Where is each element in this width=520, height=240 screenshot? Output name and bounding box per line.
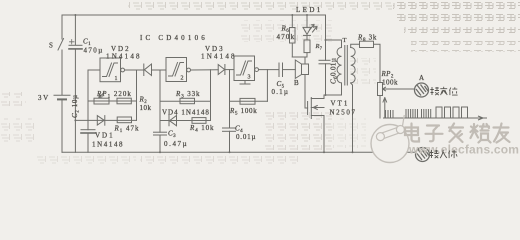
node output2: [210, 70, 212, 121]
resistor R3: [180, 98, 195, 103]
wire primary top: [326, 40, 342, 48]
transistor VT1 mosfet: [308, 95, 324, 152]
diode VD2 points left: [144, 64, 166, 76]
transformer T primary: [337, 48, 341, 83]
wire secondary bottom: [351, 83, 353, 152]
svg-text:VD1: VD1: [95, 132, 115, 140]
resistor R5: [240, 98, 255, 104]
capacitor C6: [319, 60, 330, 64]
top rail: [62, 14, 326, 16]
electrode body: [416, 148, 430, 162]
inverter subscripts: [115, 75, 251, 83]
wire C6 bottom: [326, 64, 342, 95]
svg-text:N2507: N2507: [330, 109, 357, 117]
capacitor C2: [81, 130, 95, 133]
svg-text:B: B: [294, 79, 299, 87]
label jie ren ti (vector): [430, 150, 457, 158]
RP2 bottom wire: [379, 96, 381, 119]
bottom rail: [62, 151, 416, 153]
bleedthrough background texture: [0, 0, 520, 164]
resistor R4: [192, 118, 206, 124]
wire battery to bottom rail: [61, 100, 63, 152]
node input3: [229, 70, 231, 128]
svg-text:0.47µ: 0.47µ: [164, 140, 188, 148]
node input2: [159, 70, 161, 132]
resistor R1: [117, 117, 131, 123]
resistor R2: [117, 98, 131, 104]
svg-text:S: S: [49, 42, 53, 50]
capacitor C4: [223, 128, 236, 131]
diode VD3 points right: [218, 65, 234, 75]
pulse group 1: [386, 110, 394, 118]
svg-text:3V: 3V: [38, 94, 50, 102]
wire output3: [259, 69, 280, 71]
wire output3 feedback: [266, 70, 268, 102]
wire row1 stage2: [160, 100, 211, 102]
svg-text:IC CD40106: IC CD40106: [140, 34, 208, 42]
wire C3 to rail: [159, 135, 161, 152]
svg-text:T: T: [343, 37, 347, 44]
svg-text:A: A: [419, 74, 424, 82]
capacitor C1: [69, 40, 82, 49]
wire C1 to bottom rail: [74, 49, 76, 152]
diode VD1: [97, 116, 105, 126]
wire C2: [87, 120, 89, 129]
label jie xue wei (vector): [430, 87, 457, 95]
svg-text:10k: 10k: [140, 104, 152, 112]
wire speaker to gate: [305, 75, 308, 109]
wire secondary top to R8: [351, 44, 360, 47]
battery 3V: [54, 95, 70, 99]
wire row2 stage2: [160, 120, 211, 122]
wire R6 R7 junction: [292, 56, 307, 58]
wire C5 to speaker: [283, 69, 296, 71]
capacitor C5: [279, 63, 283, 77]
wire inverter1 output: [125, 69, 144, 71]
svg-text:470k: 470k: [277, 33, 296, 41]
op-amp U3 schmitt inverter 3: [234, 56, 259, 81]
svg-text:1N4148: 1N4148: [106, 53, 142, 61]
pulse group 2: [406, 109, 418, 118]
wire row1: [88, 100, 137, 102]
svg-text:100k: 100k: [382, 79, 398, 87]
node output1: [136, 70, 138, 120]
wire speaker top stub: [304, 57, 306, 64]
waveform axis: [383, 116, 487, 120]
wire R8 to RP2: [374, 44, 381, 82]
diode VD4 points left: [169, 116, 177, 126]
wire left rail top: [61, 15, 63, 39]
wire output2: [191, 69, 219, 71]
resistor R7: [304, 35, 310, 57]
svg-text:1: 1: [115, 76, 118, 82]
svg-text:1N4148: 1N4148: [92, 141, 124, 149]
wire inverter1 input: [88, 70, 100, 120]
wire C1 drop: [74, 15, 76, 45]
wire top rail corner down: [325, 15, 327, 60]
svg-text:0.1µ: 0.1µ: [272, 88, 290, 96]
svg-text:3: 3: [248, 75, 251, 81]
svg-text:0.01µ: 0.01µ: [236, 133, 256, 141]
wire C4 to rail: [229, 131, 231, 152]
transformer core: [345, 46, 348, 86]
potentiometer RP2: [378, 83, 415, 96]
op-amp U2 schmitt inverter 2: [166, 58, 191, 82]
potentiometer RP1: [94, 93, 109, 105]
svg-text:470µ: 470µ: [84, 47, 104, 55]
resistor R6: [290, 15, 296, 57]
wire switch to battery: [61, 50, 63, 95]
electrode A: [415, 83, 429, 97]
speaker B: [295, 60, 308, 78]
watermark text dianzi fashaoyou (vector strokes): [405, 124, 510, 143]
svg-text:2: 2: [181, 76, 184, 82]
LED LED1: [303, 15, 317, 35]
wire row2: [75, 119, 136, 121]
switch S: [58, 39, 64, 51]
IC ground pin: [240, 81, 250, 85]
watermark logo: [371, 115, 409, 163]
op-amp U1 schmitt inverter 1: [100, 58, 125, 82]
pulse group 4 big: [436, 107, 468, 118]
resistor R8: [360, 41, 374, 47]
waveform: [383, 97, 487, 120]
wire row stage3: [230, 100, 268, 102]
pulse group 3: [422, 109, 431, 118]
wire input2: [160, 69, 166, 71]
svg-text:VD4 1N4148: VD4 1N4148: [162, 109, 210, 117]
svg-text:LED1: LED1: [296, 6, 323, 14]
transformer T secondary: [351, 48, 355, 83]
wire primary bottom: [341, 83, 343, 95]
capacitor C3: [154, 132, 167, 135]
svg-text:1N4148: 1N4148: [201, 53, 237, 61]
svg-text:www.elecfans.com: www.elecfans.com: [408, 143, 519, 157]
svg-text:VT1: VT1: [331, 100, 350, 108]
